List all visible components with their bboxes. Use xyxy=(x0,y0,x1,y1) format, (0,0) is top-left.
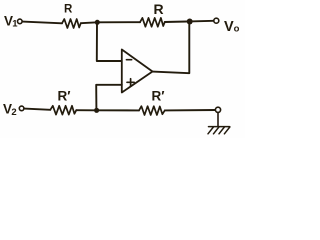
svg-text:V: V xyxy=(224,19,234,35)
wire node A down to inverting input xyxy=(97,22,122,61)
wire non-inverting input to node C xyxy=(96,85,122,108)
wire R1' to node C xyxy=(76,109,94,111)
svg-text:R′: R′ xyxy=(152,89,165,104)
wire V1 to R xyxy=(22,22,62,24)
ground xyxy=(208,127,230,134)
svg-text:o: o xyxy=(234,24,240,35)
resistor R1 xyxy=(62,19,81,28)
terminal V1 xyxy=(18,19,23,24)
wire V2 to R1' xyxy=(24,109,50,110)
svg-text:R: R xyxy=(64,4,73,16)
wire R2 to node B xyxy=(165,21,187,24)
op-amp inverting pin mark - xyxy=(127,59,132,61)
terminal V2 xyxy=(19,106,24,111)
wire R2' to ground terminal xyxy=(165,109,216,111)
svg-text:R: R xyxy=(154,1,164,17)
op-amp non-inverting pin mark + xyxy=(127,79,134,86)
resistor R2' xyxy=(139,106,165,115)
wire node C to R2' xyxy=(97,109,139,111)
op-amp U1 xyxy=(122,50,153,93)
wire terminal down to ground xyxy=(217,113,219,127)
svg-text:2: 2 xyxy=(11,107,16,118)
node C junction xyxy=(94,108,99,113)
wire node B to output terminal xyxy=(190,20,214,23)
terminal Vo xyxy=(214,18,219,23)
node A junction xyxy=(95,20,100,25)
node Vo label xyxy=(224,19,240,35)
node V1 label xyxy=(4,14,18,30)
node B junction xyxy=(187,19,193,25)
wire op-amp output up to node B xyxy=(153,22,190,74)
svg-text:R′: R′ xyxy=(58,89,71,104)
terminal at ground xyxy=(215,107,220,112)
resistor R1' xyxy=(50,106,76,115)
node V2 label xyxy=(3,102,17,118)
wire R1 to node A xyxy=(81,21,95,24)
resistor R2 xyxy=(140,18,165,27)
wire node A to R2 xyxy=(97,21,140,23)
